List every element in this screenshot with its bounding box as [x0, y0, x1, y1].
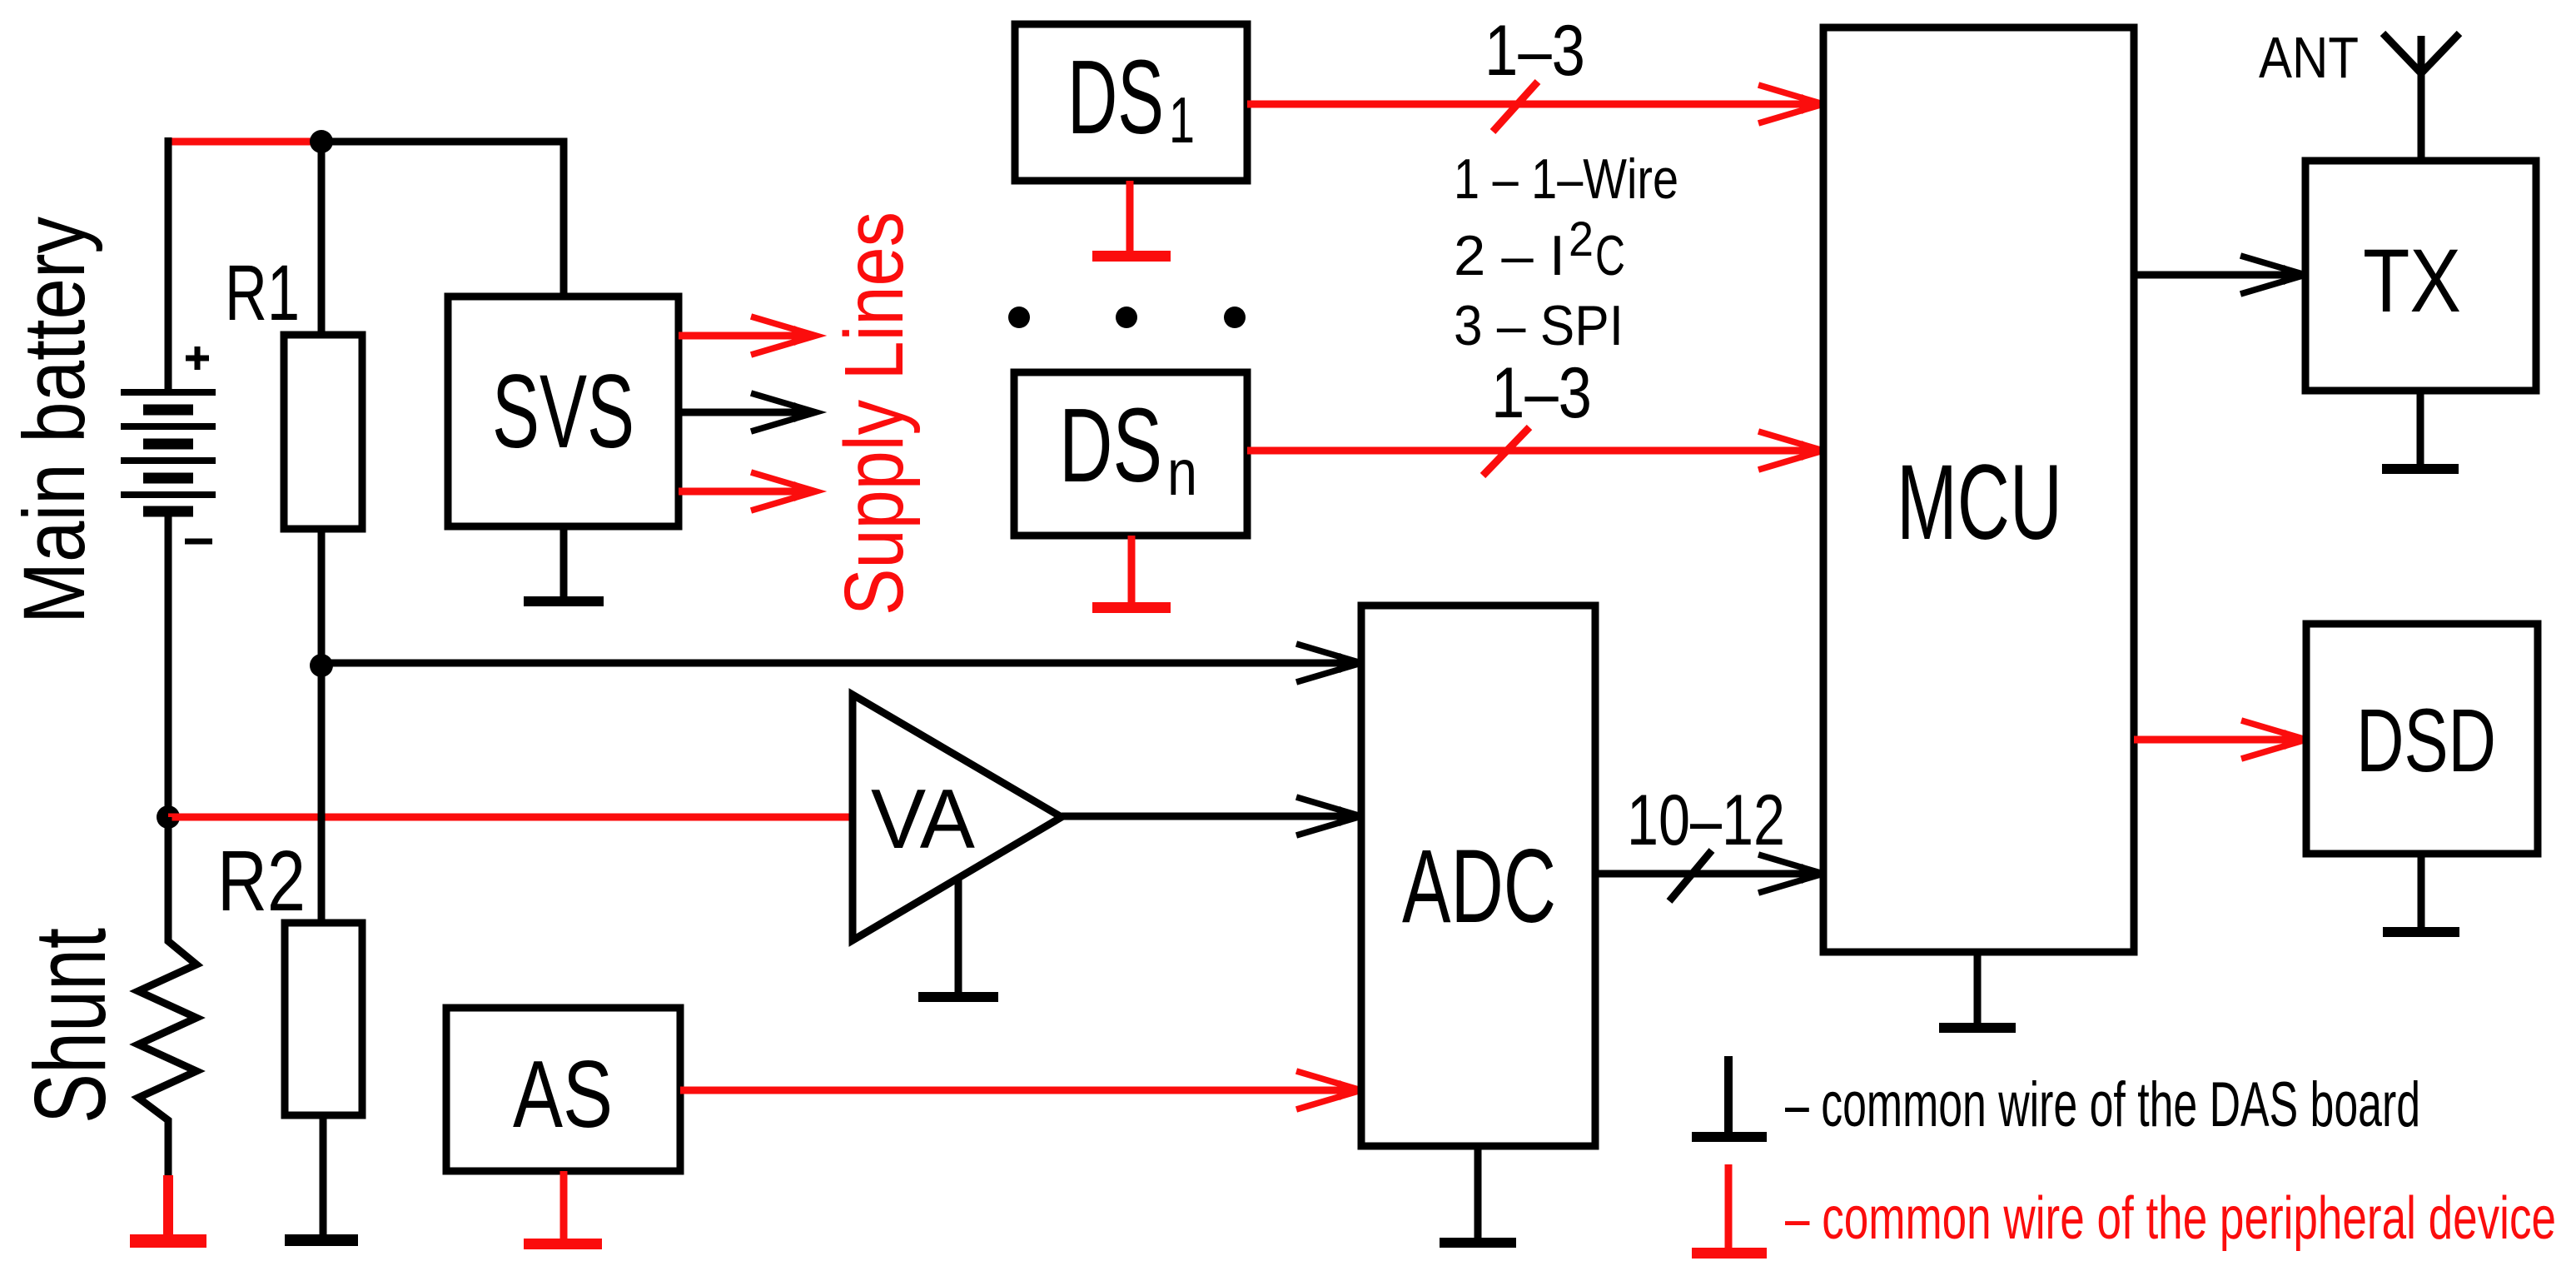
ground DSD (DAS common)	[2383, 854, 2459, 937]
svg-text:AS: AS	[513, 1042, 613, 1148]
arrow into MCU (red)	[1758, 85, 1823, 123]
svg-text:DS: DS	[1067, 38, 1164, 156]
svg-text:Shunt: Shunt	[13, 928, 127, 1124]
wire DSn to MCU red bus	[1247, 447, 1811, 455]
svg-text:1: 1	[1169, 83, 1195, 157]
wire R1 top lead	[318, 142, 326, 335]
node junction shunt (battery/VA)	[157, 805, 180, 829]
svg-text:3 – SPI: 3 – SPI	[1454, 294, 1624, 357]
legend ground DAS symbol	[1692, 1056, 1767, 1142]
ground DSn red (peripheral common)	[1092, 536, 1171, 613]
box AS	[446, 1008, 680, 1171]
arrow into ADC (red)	[1296, 1071, 1361, 1109]
resistor R1	[284, 335, 362, 529]
box SVS	[448, 297, 679, 526]
svg-text:2: 2	[1569, 212, 1594, 267]
svg-text:TX: TX	[2363, 230, 2461, 331]
arrow into DSD (red)	[2241, 720, 2306, 759]
svg-text:C: C	[1595, 224, 1625, 287]
arrow into TX (black)	[2240, 256, 2305, 294]
ground TX (DAS common)	[2382, 391, 2459, 474]
svg-text:DSD: DSD	[2356, 690, 2496, 790]
svg-text:1 – 1–Wire: 1 – 1–Wire	[1454, 147, 1678, 211]
wire R2 bottom lead	[320, 1115, 327, 1236]
antenna ANT	[2383, 33, 2459, 161]
ground AS red (peripheral common)	[524, 1171, 602, 1249]
box DS1	[1015, 24, 1247, 181]
svg-text:– common wire of the DAS board: – common wire of the DAS board	[1785, 1069, 2420, 1140]
svg-text:SVS: SVS	[492, 354, 634, 470]
svg-text:MCU: MCU	[1897, 443, 2062, 562]
wire MCU to DSD red	[2134, 736, 2294, 744]
wire AS to ADC red	[680, 1087, 1349, 1094]
arrow into ADC (black)	[1296, 644, 1361, 682]
svg-text:10–12: 10–12	[1627, 780, 1785, 860]
ground SVS (DAS common)	[524, 526, 604, 606]
node junction mid (R1/R2/ADC wire)	[310, 654, 333, 677]
battery plus sign	[186, 346, 209, 370]
op-amp VA	[853, 695, 1062, 940]
wire shunt node to VA red	[168, 814, 853, 821]
svg-text:n: n	[1167, 436, 1197, 509]
wire MCU to TX	[2134, 272, 2293, 279]
svg-text:VA: VA	[871, 773, 976, 866]
wire battery top lead	[165, 137, 172, 392]
arrow into MCU (red)	[1758, 431, 1823, 470]
battery minus sign	[185, 539, 212, 545]
box TX	[2305, 161, 2536, 391]
ground shunt red (peripheral common)	[130, 1175, 206, 1248]
wire VA to ADC	[1062, 813, 1349, 820]
box DSD	[2306, 624, 2538, 854]
ground MCU (DAS common)	[1939, 952, 2016, 1033]
wire junction to SVS	[321, 142, 564, 297]
wire node to ADC input 1	[321, 660, 1349, 667]
resistor shunt zigzag	[138, 817, 196, 1175]
node dots between DS1 and DSn	[1008, 307, 1246, 328]
legend ground peripheral symbol	[1692, 1164, 1767, 1259]
label bus legend I2C	[1454, 212, 1625, 287]
box ADC	[1361, 606, 1595, 1146]
svg-text:Supply Lines: Supply Lines	[828, 212, 921, 616]
arrow SVS supply red 1	[679, 317, 816, 355]
wire DS1 to MCU red bus	[1247, 101, 1811, 108]
wire battery+ red segment	[168, 138, 321, 146]
svg-text:R2: R2	[217, 833, 306, 929]
wire battery bottom lead	[165, 511, 172, 817]
bus slash DS1	[1493, 82, 1538, 132]
svg-text:ADC: ADC	[1402, 829, 1556, 945]
box DSn	[1014, 372, 1247, 536]
ground R2 (DAS common)	[285, 1234, 358, 1246]
arrow into MCU (black)	[1758, 855, 1823, 893]
svg-text:1–3: 1–3	[1484, 11, 1585, 91]
wire R1 bottom lead	[318, 529, 326, 665]
bus slash ADC	[1669, 850, 1712, 901]
ground VA (DAS common)	[918, 878, 998, 1002]
svg-text:2 – I: 2 – I	[1454, 224, 1565, 287]
arrow SVS supply black	[679, 393, 816, 431]
svg-text:1–3: 1–3	[1491, 353, 1592, 433]
arrow into ADC (black)	[1296, 797, 1361, 835]
node junction top (battery/R1/SVS)	[310, 130, 333, 153]
label Main battery	[6, 217, 103, 624]
resistor R2	[285, 923, 362, 1115]
svg-text:– common wire of the periphera: – common wire of the peripheral device	[1785, 1185, 2556, 1252]
svg-text:DS: DS	[1059, 386, 1162, 504]
box MCU	[1823, 27, 2134, 952]
arrow SVS supply red 2	[679, 472, 816, 511]
battery BT1	[121, 392, 216, 511]
svg-text:ANT: ANT	[2259, 25, 2359, 90]
wire ADC to MCU bus	[1595, 870, 1811, 878]
wire R2 top lead	[318, 665, 326, 923]
ground DS1 red (peripheral common)	[1092, 181, 1171, 262]
svg-text:Main battery: Main battery	[6, 217, 103, 624]
ground ADC (DAS common)	[1440, 1146, 1516, 1248]
label DSn	[1059, 386, 1197, 509]
bus slash DSn	[1483, 427, 1529, 476]
svg-text:R1: R1	[225, 249, 300, 337]
label DS1	[1067, 38, 1195, 157]
